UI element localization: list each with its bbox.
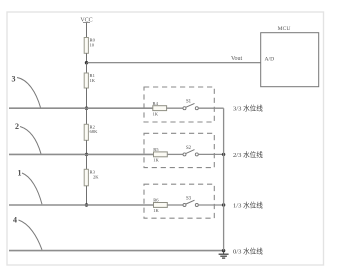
resistor R4 <box>153 101 167 117</box>
callout 1 <box>18 169 43 205</box>
resistor R0 <box>84 38 95 54</box>
wire R5 to switch S2 <box>167 153 183 155</box>
svg-text:1K: 1K <box>90 78 96 83</box>
wire row3 left segment <box>9 204 154 206</box>
switch S2 <box>183 146 198 156</box>
wire R0 to node Vout <box>86 53 88 63</box>
wire node to R1 <box>86 63 88 73</box>
node row1 junction <box>85 107 88 110</box>
resistor R3 <box>84 154 99 185</box>
svg-text:1/3 水位线: 1/3 水位线 <box>233 201 263 210</box>
wire row4 <box>9 250 224 252</box>
wire VCC to R0 <box>86 23 88 38</box>
wire R1 to row1 node <box>86 88 88 108</box>
svg-text:R6: R6 <box>153 198 159 203</box>
svg-text:2K: 2K <box>93 175 99 180</box>
resistor R1 <box>84 73 96 88</box>
MCU U1 box <box>261 26 319 87</box>
callout 4 <box>13 216 42 250</box>
power VCC <box>80 18 92 24</box>
svg-text:Vout: Vout <box>231 56 243 62</box>
svg-text:R5: R5 <box>153 147 159 152</box>
switch S3 <box>183 196 198 206</box>
svg-text:S3: S3 <box>186 196 192 201</box>
ground <box>219 251 229 259</box>
resistor R5 <box>153 147 167 163</box>
resistor R6 <box>153 198 167 214</box>
svg-text:4: 4 <box>13 216 17 225</box>
svg-text:MCU: MCU <box>278 26 291 32</box>
node bus row2 junction <box>222 153 225 156</box>
svg-text:3: 3 <box>12 75 16 84</box>
svg-text:68K: 68K <box>90 129 99 134</box>
svg-text:S2: S2 <box>186 146 192 151</box>
node bus row4 junction <box>222 249 225 252</box>
node row3 junction <box>85 203 88 206</box>
resistor R2 <box>84 108 98 140</box>
svg-text:1: 1 <box>18 169 22 178</box>
wire R4 to switch S1 <box>166 107 183 109</box>
svg-text:S1: S1 <box>186 100 192 105</box>
wire S2 to bus <box>198 153 223 155</box>
svg-text:A/D: A/D <box>265 56 275 62</box>
wire node to MCU A/D <box>87 62 261 64</box>
svg-text:2: 2 <box>15 122 19 131</box>
svg-text:1K: 1K <box>153 111 159 116</box>
wire R6 to switch S3 <box>167 204 183 206</box>
svg-text:R4: R4 <box>153 101 159 106</box>
node row2 junction <box>85 153 88 156</box>
svg-text:10: 10 <box>90 42 95 47</box>
wire R2 to row2 node <box>86 140 88 154</box>
svg-text:1K: 1K <box>153 158 159 163</box>
wire R3 to row3 node <box>86 186 88 205</box>
node Vout junction <box>85 61 88 64</box>
switch S1 <box>183 100 198 110</box>
callout 3 <box>12 75 41 108</box>
svg-text:1K: 1K <box>153 208 159 213</box>
wire row1 left segment <box>9 107 153 109</box>
svg-text:0/3 水位线: 0/3 水位线 <box>233 246 263 255</box>
dashed sensor box 2 <box>144 133 214 167</box>
wire S1 to bus corner <box>198 107 223 109</box>
wire right bus vertical <box>223 108 225 250</box>
callout 2 <box>15 122 41 154</box>
svg-text:3/3 水位线: 3/3 水位线 <box>233 103 263 112</box>
wire S3 to bus <box>198 204 223 206</box>
wire row2 left segment <box>9 153 154 155</box>
dashed sensor box 3 <box>144 184 214 218</box>
dashed sensor box 1 <box>144 87 214 122</box>
node bus row3 junction <box>222 203 225 206</box>
svg-text:2/3 水位线: 2/3 水位线 <box>233 150 263 159</box>
svg-text:R3: R3 <box>90 169 96 174</box>
